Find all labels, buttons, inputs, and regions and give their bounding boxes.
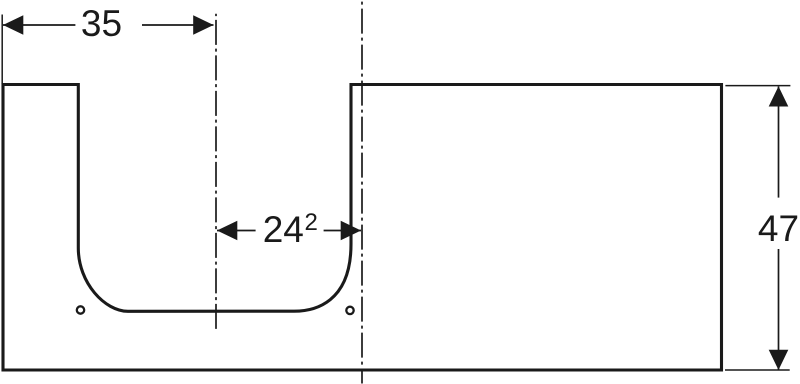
dimension 24 line [217,230,256,232]
centerline right [361,0,363,384]
dimension 47 arrow bottom [769,350,789,370]
dimension 47 arrow top [769,86,789,106]
dimension 24 arrow right [341,221,361,240]
mounting hole left [77,306,84,313]
svg-text:35: 35 [81,3,122,44]
dimension 35 line [3,24,75,26]
dimension 47 extension line top [725,85,790,87]
dimension 35 arrow left [3,15,23,34]
countertop outline [3,85,722,371]
svg-text:24: 24 [263,209,304,250]
dimension 47 line [778,87,780,198]
dimension 47 extension line bottom [725,369,790,371]
dimension 24 arrow left [217,221,237,240]
svg-text:2: 2 [305,209,318,236]
dimension 35 extension line [1,15,3,85]
dimension 35 arrow right [193,15,213,34]
mounting hole right [346,307,353,314]
centerline left [215,14,217,332]
svg-text:47: 47 [758,208,799,249]
